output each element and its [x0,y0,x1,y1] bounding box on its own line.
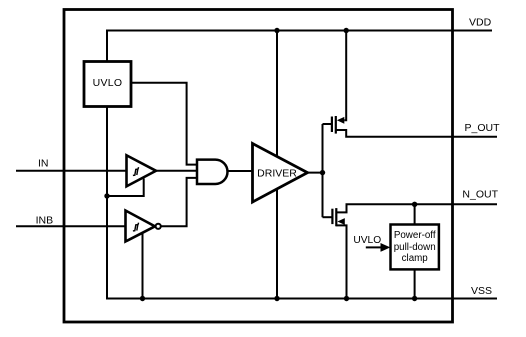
svg-text:DRIVER: DRIVER [257,167,297,179]
junction node VSS / driver rail [274,296,279,301]
wire IN buffer enable to UVLO rail [107,179,144,197]
svg-text:VDD: VDD [469,17,492,29]
junction node driver output [320,170,325,175]
driver U5 [253,144,308,203]
svg-text:INB: INB [36,214,54,226]
svg-text:VSS: VSS [471,285,492,297]
wire INB input [16,225,126,227]
schmitt inverter U3 (INB path) [126,211,161,242]
wire VDD rail (UVLO top to VDD pin) [107,31,492,62]
wire driver supply rail [276,31,278,299]
wire INB inverter output to AND gate bottom input [161,178,197,226]
power-off pull-down clamp block [391,225,439,270]
junction node VSS / INB inverter [140,296,145,301]
wire UVLO output to AND gate top input [131,83,197,165]
IC boundary box [64,10,453,323]
wire INB inverter to VSS rail [142,233,144,299]
junction node VSS / NMOS source [344,296,349,301]
wire NMOS source to VSS [336,225,346,298]
wire NMOS drain to N_OUT pin [336,204,497,212]
junction node VSS / clamp bottom [412,296,417,301]
wire clamp top lead [414,204,416,224]
AND gate U4 [197,160,228,184]
wire AND output to driver input [228,170,253,172]
svg-text:Power-off: Power-off [394,230,436,241]
svg-text:N_OUT: N_OUT [462,189,498,201]
junction node UVLO rail / buffer enable [104,193,109,198]
junction node VDD / PMOS source [344,28,349,33]
wire PMOS source rail from VDD [344,31,346,121]
wire PMOS drain to P_OUT pin [336,130,497,137]
wire NMOS gate lead [323,216,332,218]
svg-text:UVLO: UVLO [93,77,123,89]
wire UVLO bottom rail to VSS line and VSS pin [107,107,497,299]
schmitt buffer U2 (IN path) [127,155,157,186]
wire IN input [16,170,127,172]
junction node VDD / driver rail [274,28,279,33]
svg-text:IN: IN [38,157,49,169]
svg-text:clamp: clamp [402,253,429,264]
wire IN buffer output to AND gate middle input [156,170,198,172]
UVLO block [84,62,131,107]
svg-text:UVLO: UVLO [353,235,381,246]
wire clamp bottom lead [414,269,416,298]
wire PMOS gate lead [323,123,332,125]
UVLO arrow into clamp [366,246,382,248]
junction node N_OUT / clamp top [412,202,417,207]
svg-text:P_OUT: P_OUT [465,122,501,134]
transistor Q2 NMOS [332,208,344,226]
svg-text:pull-down: pull-down [394,242,436,253]
wire driver output node [308,124,323,217]
transistor Q1 PMOS [332,116,344,134]
